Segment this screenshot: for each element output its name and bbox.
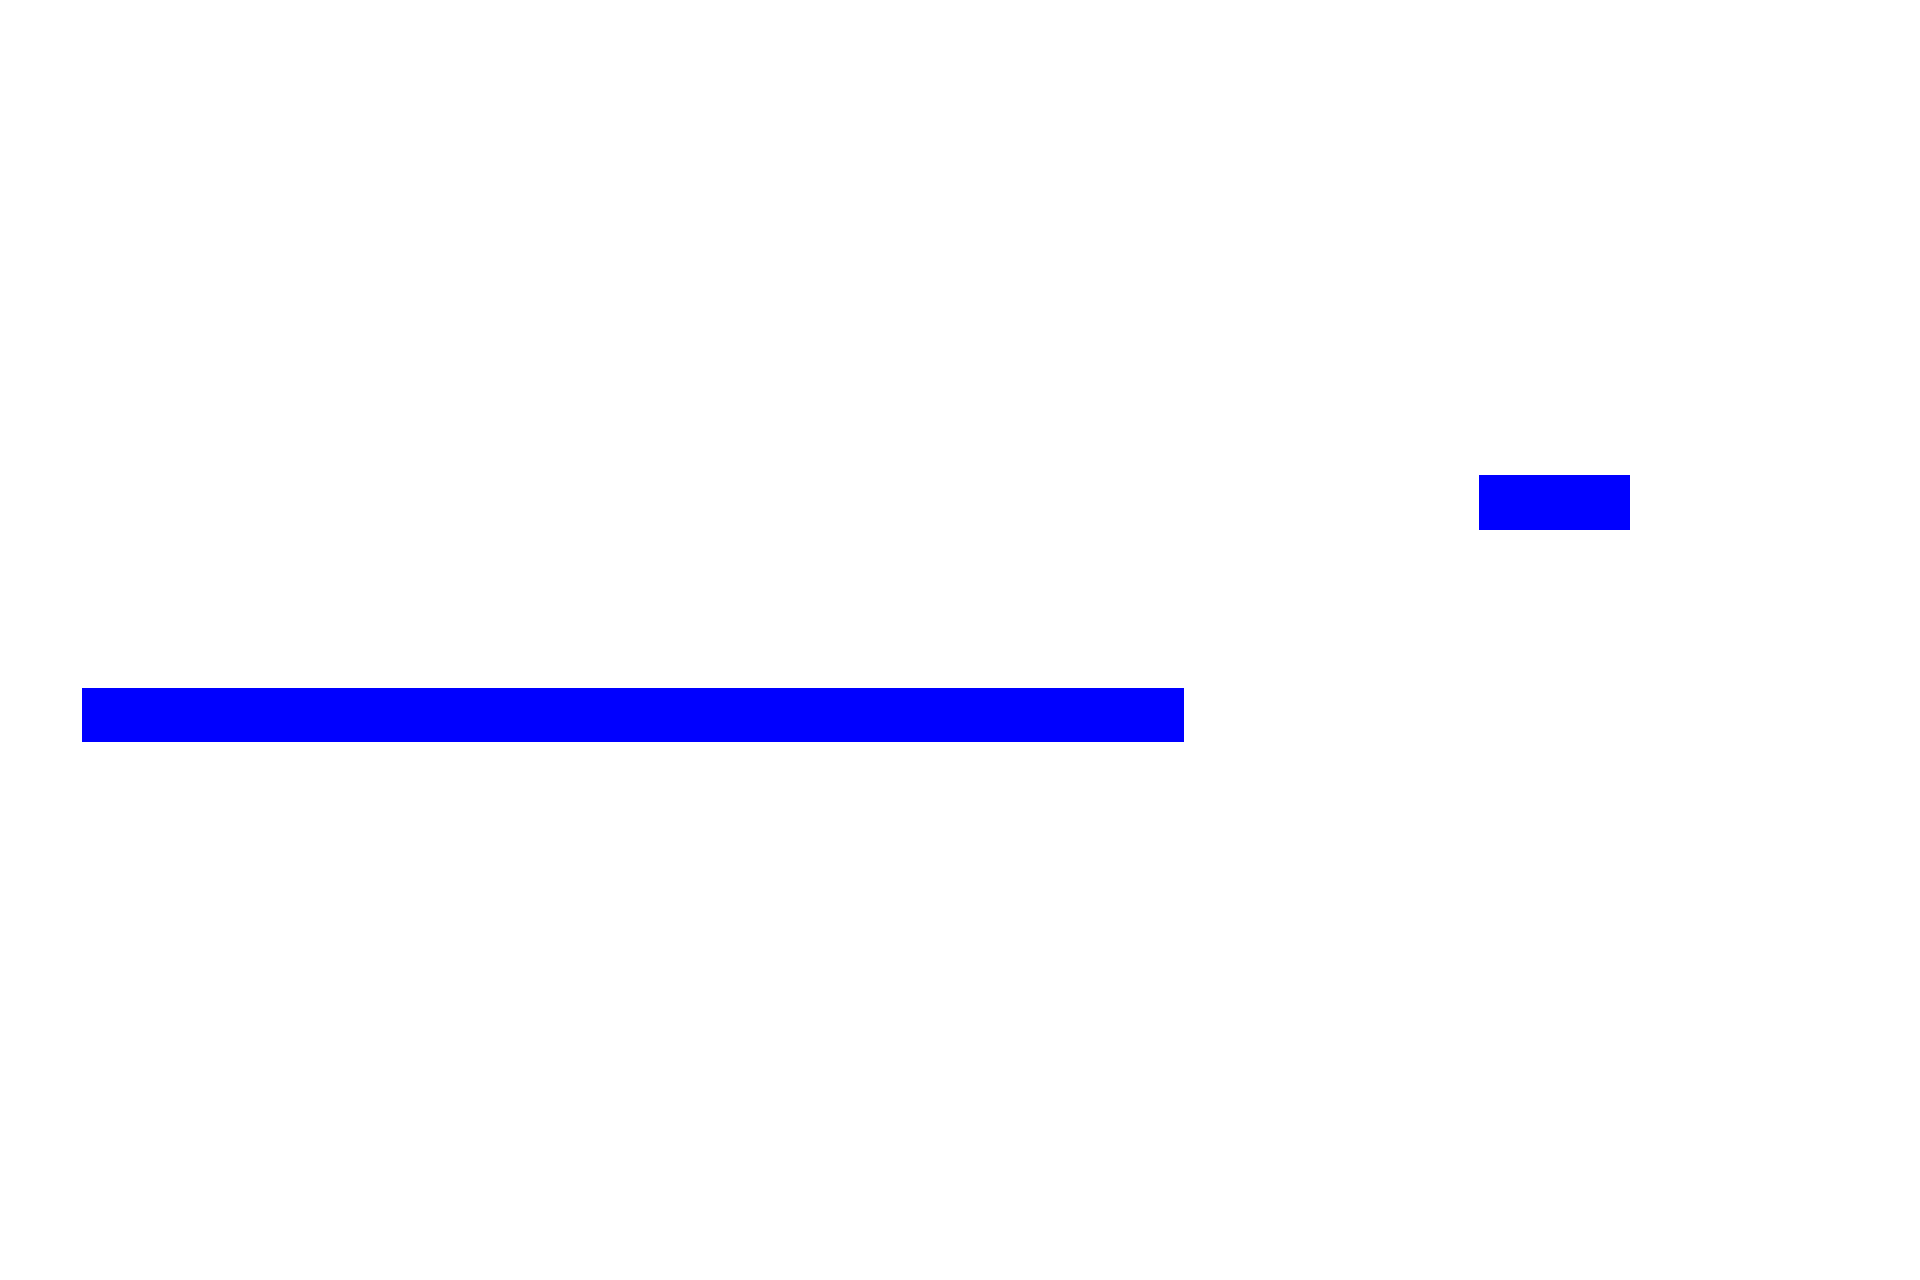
blue bar (large, lower left)	[82, 688, 1185, 743]
blue bar (small, upper right)	[1479, 475, 1630, 530]
